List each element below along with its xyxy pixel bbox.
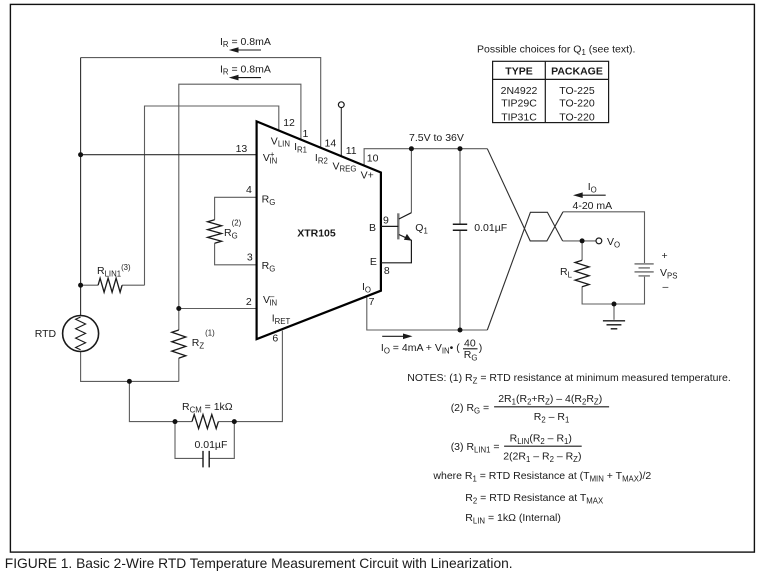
svg-text:(2) RG =: (2) RG = [451,402,489,416]
svg-text:2(2R1 – R2 – RZ): 2(2R1 – R2 – RZ) [503,451,581,465]
wire top loop 3 (VLIN pin 12 to RLIN1) [145,106,279,285]
svg-text:3: 3 [247,252,253,264]
node VO [580,238,585,243]
svg-text:0.01µF: 0.01µF [474,222,507,234]
wire VO row [563,240,597,242]
node RCM right [232,419,237,424]
wire RLIN1 left lead [81,284,99,286]
svg-text:10: 10 [367,153,379,165]
node pin13/left rail [78,152,83,157]
svg-text:FIGURE 1. Basic 2-Wire RTD Tem: FIGURE 1. Basic 2-Wire RTD Temperature M… [5,556,513,571]
svg-text:RTD: RTD [35,328,57,340]
wire RG to pin 3 [215,243,257,265]
capacitor 0.01uF bypass plates [453,224,467,230]
svg-text:): ) [479,342,483,354]
node RCM left [173,419,178,424]
Q1 collector diagonal [399,213,412,219]
wire RCM left lead [175,421,192,423]
wire pin 10 to supply rail [364,149,487,166]
svg-text:9: 9 [383,215,389,227]
wire RCM cap branch left [175,422,203,459]
wire RL bottom lead to battery [582,276,644,304]
RTD internal zigzag [76,317,86,350]
svg-text:TIP31C: TIP31C [501,111,537,123]
resistor RCM zigzag [192,415,218,429]
svg-text:TIP29C: TIP29C [501,98,537,110]
svg-text:13: 13 [236,143,248,155]
arrow IO load (points left) [581,194,606,196]
svg-text:8: 8 [384,265,390,277]
wire pin 11 VREG terminal stub [340,108,342,157]
svg-text:R2 – R1: R2 – R1 [534,411,570,425]
svg-text:1: 1 [303,128,309,140]
wire top loop 1 (IR to pin 14) [81,58,321,148]
op-amp U1 XTR105 body [257,121,381,339]
svg-text:TYPE: TYPE [505,66,532,78]
node bypass cap on rail [458,146,463,151]
svg-text:2: 2 [246,296,252,308]
svg-text:TO-220: TO-220 [559,98,595,110]
svg-text:7: 7 [369,296,375,308]
wire 4-20mA rail to battery [563,212,645,263]
svg-text:B: B [369,222,376,234]
transistor Q1 [381,213,412,263]
node pin2/RZ [176,306,181,311]
battery VPS plates [635,264,654,276]
wire left rail vertical [80,58,82,316]
svg-text:NOTES: (1) RZ = RTD resistance: NOTES: (1) RZ = RTD resistance at minimu… [407,372,730,386]
wire bypass cap bottom lead [459,231,461,330]
wire pin 7 IO rail [367,296,488,330]
table for Q1 choices (border, column divider, header rule) [493,61,609,122]
terminal VREG open circle [338,102,344,108]
node ground junction [612,302,617,307]
svg-text:PACKAGE: PACKAGE [551,66,603,78]
svg-text:+: + [662,250,668,262]
node bypass cap on IO rail [458,328,463,333]
svg-text:11: 11 [346,145,357,157]
svg-text:TO-220: TO-220 [559,111,595,123]
wire bypass cap top lead [459,149,461,224]
wire Q1 collector drop [410,149,412,213]
arrow IO formula (points right) [382,335,404,337]
Q1 base bar [397,213,399,239]
resistor RL zigzag [575,260,589,286]
wire RCM right lead to pin 6 [218,331,282,422]
wire pin 13 horizontal (dark) [81,154,257,156]
svg-text:4: 4 [246,184,252,196]
svg-text:E: E [370,256,377,268]
svg-text:6: 6 [272,333,278,345]
svg-text:4-20 mA: 4-20 mA [573,200,613,212]
svg-text:R2 = RTD Resistance at TMAX: R2 = RTD Resistance at TMAX [465,492,604,506]
wire ground drop [613,304,615,320]
twisted pair wire B [487,212,562,330]
svg-text:IR = 0.8mA: IR = 0.8mA [220,36,271,49]
capacitor 0.01uF RCM plates [203,451,209,468]
svg-text:40: 40 [464,338,476,350]
Q1 base wire from pin 9 [381,225,398,227]
ground symbol [603,321,625,329]
terminal VO open circle [596,238,602,244]
svg-text:V+: V+ [361,170,374,182]
resistor RG zigzag [208,220,222,243]
node Q1 collector on rail [409,146,414,151]
svg-text:7.5V to 36V: 7.5V to 36V [409,132,464,144]
resistor RZ zigzag [172,330,186,358]
arrow IR top 1 [237,49,261,51]
svg-text:2N4922: 2N4922 [501,85,538,97]
resistor RLIN1 zigzag [98,278,122,292]
svg-text:XTR105: XTR105 [297,228,336,240]
wire drop to RCM row [129,381,175,421]
twisted pair wire A [487,149,563,241]
node bottom rail / RCM drop [127,379,132,384]
wire RCM cap branch right [209,422,234,459]
svg-text:–: – [663,281,669,293]
svg-text:14: 14 [325,138,337,150]
wire RZ bottom lead [178,358,180,381]
node RLIN1 left [78,283,83,288]
wire bottom rail RTD to RZ [81,352,179,382]
wire RL top lead [581,241,583,260]
svg-text:TO-225: TO-225 [559,85,595,97]
Q1 emitter diagonal with arrow [381,235,412,263]
svg-text:12: 12 [283,117,295,129]
arrow IR top 2 [237,77,261,79]
wire RLIN1 right lead [122,284,144,286]
svg-text:where R1 = RTD Resistance at (: where R1 = RTD Resistance at (TMIN + TMA… [432,470,651,484]
svg-text:IR = 0.8mA: IR = 0.8mA [220,64,271,77]
wire top loop 2 (IR1 pin 1 to RZ node) [179,84,301,330]
svg-text:Possible choices for Q1 (see t: Possible choices for Q1 (see text). [477,44,635,58]
RTD sensor circle [63,316,99,352]
wire pin 2 horizontal [179,308,257,310]
svg-text:0.01µF: 0.01µF [195,439,228,451]
wire pin 4 to RG [215,197,257,220]
